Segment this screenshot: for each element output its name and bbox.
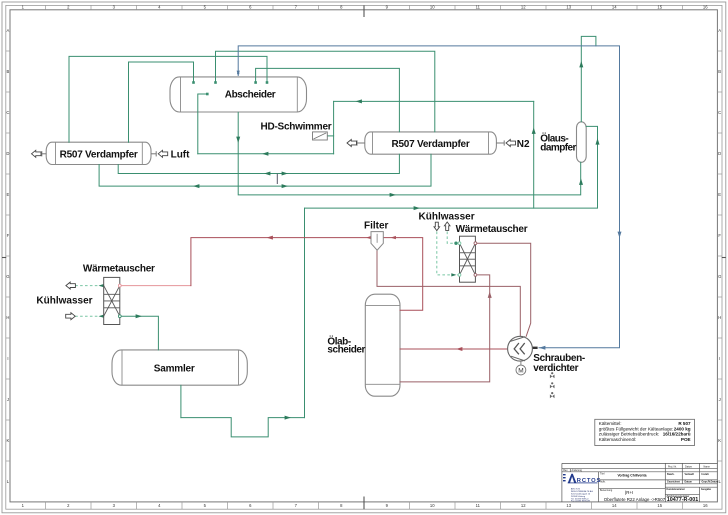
wire riser from receiver line xyxy=(533,101,535,208)
svg-text:Kühlwasser: Kühlwasser xyxy=(36,295,92,306)
svg-text:A: A xyxy=(718,28,721,33)
flow arrow left on high return line xyxy=(356,99,362,103)
svg-text:M: M xyxy=(518,367,523,374)
wire compressor to oil separator middle port xyxy=(400,348,508,350)
svg-text:Kundennummer: Kundennummer xyxy=(667,488,685,491)
vessel R507 Verdampfer right xyxy=(365,132,497,154)
open arrow cooling water in (down) xyxy=(434,222,440,230)
flow arrow up from oil still top xyxy=(579,61,583,67)
tiny valve symbol 2 below compressor label xyxy=(551,382,553,384)
port oil cooler water in xyxy=(458,274,461,277)
svg-text:Oberflutete R22 Anlage ->R507: Oberflutete R22 Anlage ->R507 xyxy=(604,497,666,502)
float valve HD-Schwimmer xyxy=(313,132,328,140)
nozzle evaporator2 right (N2) xyxy=(496,142,504,144)
tiny valve symbol 3 below compressor label xyxy=(551,392,553,394)
svg-text:N2: N2 xyxy=(517,139,530,150)
wire float-valve drop line xyxy=(333,101,335,153)
svg-text:14: 14 xyxy=(612,5,617,10)
svg-text:J: J xyxy=(719,397,721,402)
wire oil separator bottom to oil cooler xyxy=(400,275,490,382)
svg-text:Wärmetauscher: Wärmetauscher xyxy=(456,224,528,235)
wire separator to evaporator2 top (line 1) xyxy=(216,51,435,132)
wire condenser inlet (salmon) xyxy=(120,285,191,287)
compressor (Schraubenverdichter) xyxy=(508,336,533,361)
wire receiver riser xyxy=(304,208,306,418)
flow arrow right to oil still xyxy=(390,193,396,197)
node separator port 3 xyxy=(254,81,257,84)
svg-text:verdichter: verdichter xyxy=(533,363,578,374)
svg-text:B: B xyxy=(7,69,10,74)
svg-text:10: 10 xyxy=(430,503,435,508)
port oil cooler oil in xyxy=(474,274,477,277)
compressor suction nozzle xyxy=(532,347,537,349)
flow arrow down below separator xyxy=(236,137,240,143)
wire suction line separator to compressor xyxy=(238,46,619,348)
svg-text:16: 16 xyxy=(703,5,708,10)
nozzle evaporator2 left with flow arrow xyxy=(357,142,365,144)
wire HD-Schwimmer tap stub xyxy=(327,135,333,137)
wire oil cooler outlet to compressor xyxy=(475,243,530,336)
svg-text:F: F xyxy=(718,233,721,238)
port oil cooler oil out xyxy=(474,242,477,245)
nozzle evaporator1 left with flow arrow xyxy=(42,153,46,155)
flow arrow up on riser xyxy=(532,128,536,134)
flow arrow right to receiver xyxy=(136,314,142,318)
svg-text:11: 11 xyxy=(476,5,481,10)
flow arrow left on feed upper xyxy=(264,172,270,176)
svg-text:F: F xyxy=(7,233,10,238)
svg-text:Vortrag Chillventa: Vortrag Chillventa xyxy=(618,474,647,478)
heat exchanger left (condenser) xyxy=(104,277,120,324)
svg-text:Rev.: Rev. xyxy=(563,469,568,472)
svg-text:Sammler: Sammler xyxy=(154,364,195,375)
wire high level return line horizontal xyxy=(334,100,534,102)
motor M xyxy=(520,361,522,365)
svg-text:K: K xyxy=(718,438,721,443)
svg-text:(R+I: (R+I xyxy=(625,490,633,495)
wire cooling water inlet (left heat exchanger) xyxy=(75,315,104,317)
svg-text:12: 12 xyxy=(521,5,526,10)
flow arrow up into oil still xyxy=(579,179,583,185)
svg-text:scheider: scheider xyxy=(327,345,365,356)
wire cooling water inlet (right heat exchanger) xyxy=(437,232,460,275)
svg-text:15: 15 xyxy=(657,503,662,508)
svg-text:Bearb.: Bearb. xyxy=(667,473,675,476)
svg-text:14: 14 xyxy=(612,503,617,508)
heat exchanger right (oil cooler) xyxy=(460,236,476,282)
vessel Abscheider xyxy=(170,77,307,112)
svg-text:10: 10 xyxy=(430,5,435,10)
flow arrow left into filter xyxy=(366,236,371,239)
svg-text:POE: POE xyxy=(681,437,691,442)
info box refrigerant data xyxy=(595,419,695,445)
vessel Oelabscheider xyxy=(365,294,400,396)
svg-text:Name: Name xyxy=(704,465,711,468)
vessel Sammler xyxy=(112,350,247,385)
svg-text:Gezeichnet: Gezeichnet xyxy=(667,480,680,483)
node separator dip tube port xyxy=(206,93,209,96)
node separator port 4 xyxy=(266,81,269,84)
wire cooling water outlet (left heat exchanger) xyxy=(75,285,104,287)
svg-text:R507 Verdampfer: R507 Verdampfer xyxy=(392,139,470,150)
svg-text:Datum: Datum xyxy=(685,480,692,483)
node separator port 1 xyxy=(192,81,195,84)
svg-text:Titel: Titel xyxy=(600,473,605,476)
junction stub between feed lines xyxy=(276,174,278,184)
wire separator to evaporator2 top (line 2) xyxy=(256,68,400,131)
title block xyxy=(562,463,718,502)
svg-text:G: G xyxy=(6,274,9,279)
flow arrow into compressor suction xyxy=(539,346,545,350)
svg-text:C: C xyxy=(718,110,721,115)
svg-text:J: J xyxy=(7,397,9,402)
tiny valve symbol 1 below compressor label xyxy=(551,372,553,374)
wire evaporator1 top to separator (suction line 2) xyxy=(129,62,194,142)
svg-text:HD-Schwimmer: HD-Schwimmer xyxy=(261,122,332,133)
svg-text:E: E xyxy=(7,192,10,197)
svg-text:C: C xyxy=(6,110,9,115)
flow arrow left into oil separator xyxy=(456,347,462,351)
flow arrow left on return line xyxy=(262,152,268,156)
svg-text:16: 16 xyxy=(703,503,708,508)
svg-text:Kühlwasser: Kühlwasser xyxy=(419,212,475,223)
wire evaporator feed line lower xyxy=(99,154,431,186)
wire filter drain / compressor discharge header xyxy=(377,250,520,336)
open arrow cooling water out (up) xyxy=(444,222,450,230)
wire receiver line to oil still side port xyxy=(305,126,598,208)
flow arrow left before corner xyxy=(267,236,273,240)
svg-text:Luft: Luft xyxy=(171,150,191,161)
open arrow cooling water out left HX xyxy=(66,282,76,289)
flow arrow up to oil cooler xyxy=(488,292,492,298)
flow arrow right on receiver outlet xyxy=(285,416,291,420)
svg-text:10477-R-001: 10477-R-001 xyxy=(667,497,698,503)
svg-text:G: G xyxy=(718,274,721,279)
vessel R507 Verdampfer left xyxy=(46,142,151,164)
svg-text:Fax 04193 9595-99: Fax 04193 9595-99 xyxy=(571,501,591,503)
flow arrow down into separator xyxy=(237,71,240,76)
wire separator bottom to oil still xyxy=(238,112,581,194)
wire receiver outlet with liquid trap xyxy=(181,418,305,437)
svg-text:12: 12 xyxy=(521,503,526,508)
wire receiver bottom drop xyxy=(180,385,182,417)
wire discharge gas to filter xyxy=(191,238,371,286)
svg-text:Änderung: Änderung xyxy=(572,469,583,472)
flow arrow up to oil still port xyxy=(596,138,600,144)
wire evaporator feed line upper xyxy=(118,154,399,173)
svg-text:Install.: Install. xyxy=(702,473,710,476)
flow arrow at left HX lower port xyxy=(99,315,104,318)
wire float-valve return line horizontal xyxy=(198,153,334,155)
svg-text:A: A xyxy=(7,28,10,33)
svg-text:B: B xyxy=(718,69,721,74)
vessel Oelausdampfer xyxy=(577,122,587,163)
wire condenser outlet to receiver xyxy=(120,316,159,350)
flow arrow left on feed lower xyxy=(193,184,199,188)
svg-text:Datum: Datum xyxy=(685,465,692,468)
svg-text:11: 11 xyxy=(476,503,481,508)
svg-text:Verkauft: Verkauft xyxy=(685,473,695,476)
svg-text:Abscheider: Abscheider xyxy=(225,90,276,101)
svg-text:H: H xyxy=(718,315,721,320)
svg-text:Kältemaschinenöl:: Kältemaschinenöl: xyxy=(599,437,637,442)
port condenser liquid outlet xyxy=(118,315,121,318)
flow arrow out of left HX upper port xyxy=(99,284,104,287)
ARCTOS logo xyxy=(563,474,601,484)
svg-text:Filter: Filter xyxy=(364,220,389,231)
node separator port 2 xyxy=(214,81,217,84)
svg-text:Gepr./N.Datum: Gepr./N.Datum xyxy=(702,480,719,483)
flow arrow right on feed upper xyxy=(282,172,288,176)
svg-text:D: D xyxy=(718,151,721,156)
wire cooling water outlet (right heat exchanger) xyxy=(447,232,459,244)
wire evaporator1 top to separator (suction line 1) xyxy=(69,56,267,142)
wire separator internal dip tube xyxy=(198,94,208,154)
svg-text:Wärmetauscher: Wärmetauscher xyxy=(83,263,155,274)
svg-text:D: D xyxy=(6,151,9,156)
open arrow cooling water in left HX xyxy=(66,313,76,320)
svg-text:R507 Verdampfer: R507 Verdampfer xyxy=(60,150,138,161)
flow arrow right on feed lower xyxy=(282,184,288,188)
wire oil still vapour to suction xyxy=(581,36,596,121)
svg-text:E: E xyxy=(718,192,721,197)
svg-text:Proj. Nr.: Proj. Nr. xyxy=(668,465,677,468)
svg-text:dampfer: dampfer xyxy=(540,143,576,154)
svg-text:Benennung: Benennung xyxy=(600,489,613,492)
svg-text:13: 13 xyxy=(566,503,571,508)
svg-text:I: I xyxy=(719,356,720,361)
flow arrow right on receiver line xyxy=(414,206,420,210)
filter F1 xyxy=(371,232,383,251)
port oil cooler water out xyxy=(458,242,461,245)
port condenser hot inlet xyxy=(118,284,121,287)
junction dot at right HX upper water port xyxy=(454,242,457,245)
wire filter to oil separator top port xyxy=(383,238,422,311)
svg-text:K: K xyxy=(7,438,10,443)
svg-text:I: I xyxy=(7,356,8,361)
svg-text:15: 15 xyxy=(657,5,662,10)
nozzle evaporator1 right (Luft) xyxy=(151,153,156,155)
flow arrow into right HX lower port xyxy=(451,273,456,276)
svg-text:H: H xyxy=(6,315,9,320)
svg-text:Ausgabe: Ausgabe xyxy=(701,488,712,491)
flow arrow left after filter xyxy=(391,236,396,239)
flow arrow down on suction riser xyxy=(618,232,622,238)
svg-text:13: 13 xyxy=(566,5,571,10)
